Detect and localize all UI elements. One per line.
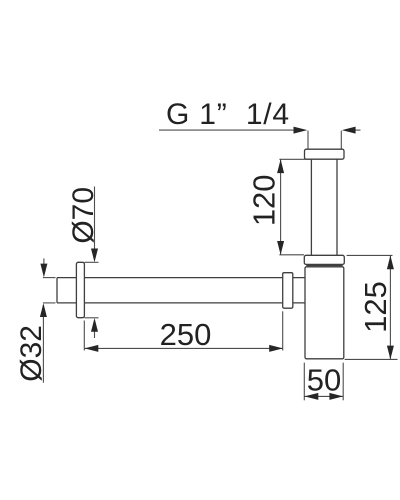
dim 250 extension right (282, 311, 284, 350)
arrow G leader right (294, 127, 308, 134)
dim 125 extension bottom (345, 358, 398, 360)
arrow 50 right (329, 393, 343, 400)
arrow 120 down (277, 241, 284, 255)
dim 120 extension bottom (279, 254, 304, 256)
inlet cap flange G1 1/4 (305, 149, 345, 159)
arrow 120 up (277, 159, 284, 173)
compression nut at trap body (283, 273, 293, 309)
Ø70 extension top (84, 261, 98, 263)
Ø70 leader shaft top (94, 187, 96, 261)
body washer line (306, 265, 342, 267)
arrow O70 down (91, 249, 98, 263)
Ø32 extension top (43, 277, 56, 279)
svg-text:125: 125 (358, 281, 393, 333)
body top nut (304, 255, 344, 264)
arrow O70 up (91, 318, 98, 332)
dim 50 extension left (303, 363, 305, 401)
arrow 50 left (305, 393, 319, 400)
arrow G stub left (342, 127, 356, 134)
svg-text:Ø70: Ø70 (67, 187, 100, 244)
Ø32 leader shaft bottom (42, 305, 44, 383)
vertical inlet pipe (311, 159, 337, 255)
svg-text:250: 250 (160, 317, 212, 352)
G extension line right (340, 131, 342, 149)
svg-text:G 1” 1/4: G 1” 1/4 (166, 98, 290, 131)
dim 125 line (389, 255, 391, 359)
dim 120 line (280, 159, 282, 255)
dim 50 line (305, 395, 344, 397)
trap body cup (305, 267, 344, 359)
arrow 250 right (269, 345, 283, 352)
dim 50 extension right (342, 363, 344, 401)
wall flange Ø70 (76, 262, 84, 317)
G extension line left (307, 131, 309, 149)
G label leader line (159, 129, 296, 131)
G label right stub (353, 129, 361, 131)
svg-text:Ø32: Ø32 (15, 325, 48, 382)
arrow 125 up (387, 255, 394, 269)
dim 250 extension left (83, 321, 85, 351)
arrow O32 down (40, 264, 47, 278)
Ø70 extension bottom (84, 317, 98, 319)
Ø32 stub top (43, 258, 45, 275)
horizontal outlet pipe (57, 278, 305, 303)
arrow 125 down (387, 346, 394, 360)
Ø32 extension bottom (43, 302, 56, 304)
arrow O32 up (40, 303, 47, 317)
svg-text:50: 50 (307, 363, 341, 398)
svg-text:120: 120 (247, 174, 282, 226)
arrow 250 left (85, 345, 99, 352)
dim 120 extension top (279, 158, 311, 160)
dim 125 extension top (347, 254, 393, 256)
dim 250 line (85, 347, 284, 349)
Ø70 stub bottom (94, 320, 96, 338)
